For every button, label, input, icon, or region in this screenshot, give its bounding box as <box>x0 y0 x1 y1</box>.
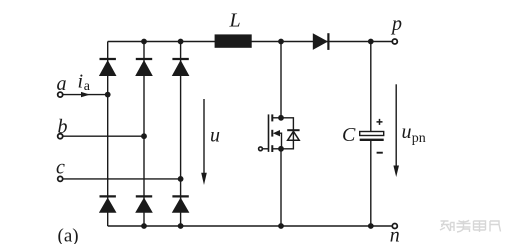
label minus <box>377 152 383 154</box>
svg-text:C: C <box>342 124 356 146</box>
svg-text:a: a <box>84 79 91 94</box>
node dot bottom rail leg2 <box>141 223 147 229</box>
label b <box>58 116 68 138</box>
svg-text:c: c <box>56 157 65 179</box>
node b terminal <box>58 134 63 139</box>
svg-text:u: u <box>210 124 220 146</box>
node dot top rail switch <box>278 39 284 45</box>
current arrow i_a <box>81 92 90 97</box>
watermark 知乎用户 <box>440 220 501 232</box>
wire phase c lead <box>62 178 180 180</box>
wire phase a lead <box>62 94 107 96</box>
svg-text:n: n <box>390 225 400 244</box>
svg-text:(a): (a) <box>58 226 79 244</box>
svg-text:b: b <box>58 116 68 138</box>
diode D3 top leg2 <box>135 59 153 76</box>
wire bridge leg 2 <box>143 42 145 227</box>
wire capacitor bottom <box>370 141 372 226</box>
capacitor C plates <box>360 132 384 140</box>
diode D1 top leg1 <box>99 59 117 76</box>
node dot top rail leg3 <box>178 39 184 45</box>
label L <box>229 10 241 32</box>
wire bottom rail n <box>108 225 393 227</box>
node dot top rail capacitor <box>368 39 374 45</box>
wire top rail p <box>108 41 393 43</box>
label plus <box>377 119 383 125</box>
node gate terminal <box>259 147 263 151</box>
label c <box>56 157 65 179</box>
wire capacitor top <box>370 42 372 132</box>
svg-text:pn: pn <box>412 131 426 146</box>
label u_pn <box>402 121 426 146</box>
node dot phase b leg2 <box>141 133 147 139</box>
transistor S MOSFET <box>263 114 282 152</box>
label p <box>390 13 402 35</box>
terminal p <box>392 39 397 44</box>
wire phase b lead <box>62 135 144 137</box>
node c terminal <box>58 176 63 181</box>
wire switch column top <box>280 42 282 118</box>
terminal n <box>392 224 397 229</box>
diode D2 bottom leg3 <box>172 196 190 212</box>
node dot phase c leg3 <box>178 176 184 182</box>
label n <box>390 225 400 244</box>
inductor L <box>215 34 252 47</box>
diode D6 bottom leg2 <box>135 196 153 212</box>
label a <box>57 73 67 95</box>
svg-text:u: u <box>402 121 412 143</box>
svg-text:a: a <box>57 73 67 95</box>
voltage arrow u_pn <box>393 84 399 177</box>
label i_a <box>78 71 91 94</box>
node dot bottom rail capacitor <box>368 223 374 229</box>
node dot bottom rail switch <box>278 223 284 229</box>
node dot bottom rail leg3 <box>178 223 184 229</box>
voltage arrow u <box>201 99 207 185</box>
wire bridge leg 1 <box>107 42 109 227</box>
boost diode D7 <box>313 33 329 50</box>
label (a) <box>58 226 79 244</box>
diode D5 top leg3 <box>172 59 190 76</box>
svg-text:L: L <box>229 10 241 32</box>
node dot phase a leg1 <box>105 92 111 98</box>
label u <box>210 124 220 146</box>
node dot MOSFET drain <box>278 115 284 121</box>
diode D4 bottom leg1 <box>99 196 117 212</box>
wire bridge leg 3 <box>180 42 182 227</box>
svg-text:p: p <box>390 13 402 35</box>
label C <box>342 124 356 146</box>
antiparallel diode of S <box>287 130 299 140</box>
node dot MOSFET source <box>278 146 284 152</box>
svg-text:i: i <box>78 71 84 93</box>
wire switch column bottom <box>280 149 282 226</box>
node dot top rail leg2 <box>141 39 147 45</box>
node a terminal <box>58 92 63 97</box>
wire antiparallel diode branch <box>281 118 293 149</box>
